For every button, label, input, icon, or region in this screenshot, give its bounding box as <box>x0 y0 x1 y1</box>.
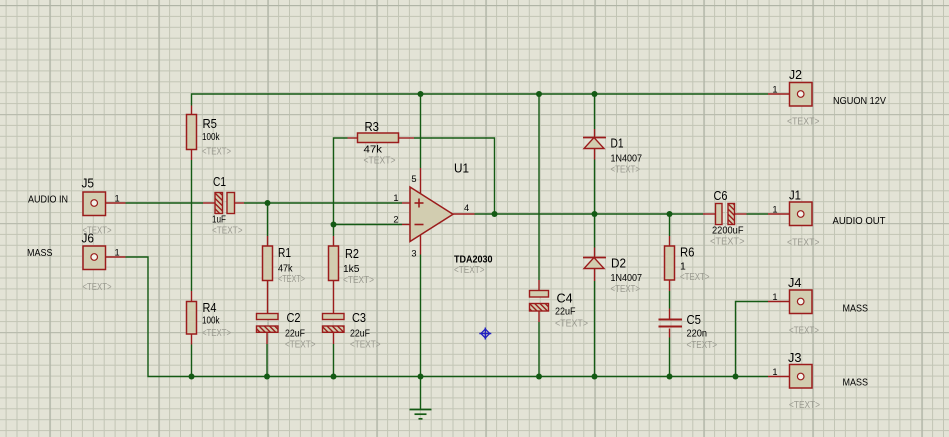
svg-text:1N4007: 1N4007 <box>611 273 643 284</box>
svg-text:<TEXT>: <TEXT> <box>83 282 112 293</box>
node AUDIO OUT <box>833 216 886 227</box>
svg-text:C2: C2 <box>287 311 301 325</box>
svg-text:<TEXT>: <TEXT> <box>789 326 819 337</box>
svg-text:R1: R1 <box>278 246 291 260</box>
wire C6 to J1 <box>747 213 769 215</box>
value R1 47k <box>278 264 293 275</box>
text C2 <box>285 340 316 351</box>
text J4 <box>789 326 819 337</box>
svg-text:<TEXT>: <TEXT> <box>285 340 316 351</box>
junction top rail / D1 <box>592 91 598 97</box>
svg-text:MASS: MASS <box>843 378 869 389</box>
svg-text:1: 1 <box>680 262 686 273</box>
junction ground rail / C3 <box>331 374 337 380</box>
wire U1 pin2 to R2/R3 node <box>334 225 403 237</box>
text R5 <box>202 147 231 158</box>
svg-text:<TEXT>: <TEXT> <box>680 272 710 283</box>
svg-text:2200uF: 2200uF <box>712 226 744 237</box>
wire R5 to R4 bias column <box>191 160 193 291</box>
svg-text:R3: R3 <box>365 120 380 134</box>
value D2 1N4007 <box>611 273 643 284</box>
capacitor C1 <box>203 193 244 214</box>
label J1 <box>789 189 801 203</box>
label C1 <box>213 175 226 189</box>
label U1 <box>454 160 469 175</box>
wire C2 to ground rail <box>266 344 268 377</box>
node MASS J4 <box>843 303 869 314</box>
label J2 <box>789 68 802 82</box>
svg-text:<TEXT>: <TEXT> <box>350 340 381 351</box>
label J6 <box>82 232 95 246</box>
text C1 <box>212 226 243 237</box>
text R1 <box>278 274 305 285</box>
value C2 22uF <box>285 329 305 340</box>
svg-text:1k5: 1k5 <box>343 264 360 275</box>
svg-text:1: 1 <box>772 367 777 377</box>
text C5 <box>687 340 718 351</box>
pin 1 U1 <box>393 193 398 203</box>
svg-text:22uF: 22uF <box>555 307 576 318</box>
wire ground rail (MASS) <box>126 257 769 377</box>
value D1 1N4007 <box>611 154 643 165</box>
label D1 <box>611 137 624 151</box>
text D1 <box>611 165 641 176</box>
text J1 <box>787 238 820 249</box>
svg-text:1: 1 <box>393 193 398 203</box>
svg-text:AUDIO OUT: AUDIO OUT <box>833 216 886 227</box>
value R4 100k <box>202 316 220 327</box>
value C4 22uF <box>555 307 576 318</box>
svg-text:2: 2 <box>393 215 398 225</box>
op-amp U1 TDA2030 <box>402 168 475 255</box>
node NGUON 12V <box>833 96 886 107</box>
wire R6 to C5 <box>669 291 671 309</box>
svg-text:R6: R6 <box>680 246 695 260</box>
svg-text:<TEXT>: <TEXT> <box>710 237 745 248</box>
label R3 <box>365 120 380 134</box>
svg-text:1: 1 <box>772 85 777 95</box>
svg-text:J5: J5 <box>82 177 95 191</box>
svg-text:NGUON 12V: NGUON 12V <box>833 96 886 107</box>
junction ground rail / U1 pin3 <box>418 374 424 380</box>
text C6 <box>710 237 745 248</box>
wire J5 to C1 (AUDIO IN) <box>126 202 204 204</box>
diode D2 1N4007 <box>583 248 606 282</box>
svg-text:<TEXT>: <TEXT> <box>454 265 485 276</box>
text U1 <box>454 265 485 276</box>
pin 1 J3 <box>772 367 777 377</box>
junction output / R6 <box>667 211 673 217</box>
resistor R4 <box>187 291 197 345</box>
capacitor C5 <box>659 309 683 338</box>
svg-text:1: 1 <box>772 292 777 302</box>
wire R3 left to pin2 node <box>334 138 348 225</box>
label C3 <box>352 311 366 325</box>
text D2 <box>611 284 641 295</box>
resistor R3 <box>348 133 415 143</box>
junction output / feedback <box>492 211 498 217</box>
svg-text:MASS: MASS <box>843 303 869 314</box>
resistor R1 <box>263 236 273 314</box>
wire D2 cathode from output row <box>594 214 596 248</box>
value C6 2200uF <box>712 226 744 237</box>
junction ground rail / C4 <box>536 374 542 380</box>
svg-text:<TEXT>: <TEXT> <box>212 226 243 237</box>
wire C3 to ground rail <box>333 344 335 377</box>
svg-text:R4: R4 <box>203 301 217 315</box>
node MASS J6 <box>27 248 53 259</box>
junction input node / R1 <box>265 200 271 206</box>
text R4 <box>202 328 231 339</box>
svg-text:1: 1 <box>772 205 777 215</box>
pin 1 J2 <box>772 85 777 95</box>
value C5 220n <box>687 329 708 340</box>
svg-text:TDA2030: TDA2030 <box>454 255 493 266</box>
svg-text:1: 1 <box>115 194 120 204</box>
wire C1 to U1 pin1 input node <box>244 202 402 204</box>
svg-text:1uF: 1uF <box>212 215 226 226</box>
svg-text:J6: J6 <box>82 232 95 246</box>
svg-text:1N4007: 1N4007 <box>611 154 643 165</box>
svg-text:22uF: 22uF <box>350 329 370 340</box>
svg-text:R2: R2 <box>345 247 359 261</box>
value C3 22uF <box>350 329 370 340</box>
ground <box>410 377 432 419</box>
label J5 <box>82 177 95 191</box>
label D2 <box>611 257 626 271</box>
diode D1 1N4007 <box>583 129 606 160</box>
node AUDIO IN <box>28 195 68 206</box>
wire C4 to ground rail <box>538 322 540 377</box>
text J5 <box>83 226 112 237</box>
svg-text:<TEXT>: <TEXT> <box>343 275 374 286</box>
wire D1 cathode from top rail <box>594 94 596 129</box>
svg-text:100k: 100k <box>202 132 220 143</box>
svg-text:C3: C3 <box>352 311 366 325</box>
svg-text:C6: C6 <box>714 189 728 203</box>
value R2 1k5 <box>343 264 360 275</box>
svg-text:D1: D1 <box>611 137 624 151</box>
label R1 <box>278 246 291 260</box>
svg-text:J2: J2 <box>789 68 802 82</box>
wire D1 anode to output row <box>594 160 596 215</box>
resistor R5 <box>187 106 197 161</box>
text R3 <box>364 156 396 167</box>
value U1 TDA2030 <box>454 255 493 266</box>
svg-text:J4: J4 <box>788 276 802 290</box>
capacitor C6 <box>703 204 747 225</box>
capacitor C3 <box>323 314 345 345</box>
svg-text:C5: C5 <box>687 313 702 327</box>
wire U1 pin5 from top rail <box>420 94 422 168</box>
wire U1 pin3 to ground rail <box>420 255 422 377</box>
junction top rail / U1 pin5 <box>418 91 424 97</box>
text J2 <box>787 117 820 128</box>
wire C4 column top <box>538 94 540 280</box>
junction top rail / C4 <box>536 91 542 97</box>
label R4 <box>203 301 217 315</box>
value R3 47k <box>364 145 383 156</box>
node MASS J3 <box>843 378 869 389</box>
wire R1 column to C2 top <box>267 203 269 236</box>
pin 3 U1 <box>411 249 416 259</box>
svg-text:C4: C4 <box>557 292 573 306</box>
connector J4 <box>768 290 812 314</box>
svg-text:100k: 100k <box>202 316 220 327</box>
svg-text:220n: 220n <box>687 329 708 340</box>
label R6 <box>680 246 695 260</box>
junction ground rail / J4 branch <box>733 374 739 380</box>
origin marker <box>479 328 491 340</box>
pin 5 U1 <box>411 174 416 184</box>
svg-text:<TEXT>: <TEXT> <box>787 238 820 249</box>
wire R3 right feedback to output <box>414 138 495 214</box>
svg-text:AUDIO IN: AUDIO IN <box>28 195 68 206</box>
connector J6 <box>83 246 126 270</box>
pin 1 J4 <box>772 292 777 302</box>
svg-text:J1: J1 <box>789 189 801 203</box>
svg-text:<TEXT>: <TEXT> <box>364 156 396 167</box>
svg-text:<TEXT>: <TEXT> <box>202 328 231 339</box>
capacitor C4 <box>530 280 549 322</box>
svg-text:4: 4 <box>464 203 469 213</box>
value R5 100k <box>202 132 220 143</box>
resistor R2 <box>329 236 339 314</box>
svg-text:<TEXT>: <TEXT> <box>555 319 588 330</box>
wire D2 anode to ground rail <box>594 281 596 377</box>
text C4 <box>555 319 588 330</box>
wire R6 from output row <box>669 214 671 236</box>
pin 1 J6 <box>115 248 120 258</box>
label J3 <box>788 351 802 365</box>
text C3 <box>350 340 381 351</box>
label C2 <box>287 311 301 325</box>
svg-text:1: 1 <box>115 248 120 258</box>
svg-text:<TEXT>: <TEXT> <box>611 284 641 295</box>
value C1 1uF <box>212 215 226 226</box>
wire +12V top rail <box>192 94 769 106</box>
svg-text:47k: 47k <box>364 145 383 156</box>
svg-text:J3: J3 <box>788 351 802 365</box>
label C5 <box>687 313 702 327</box>
pin 1 J5 <box>115 194 120 204</box>
junction output / D1 D2 <box>592 211 598 217</box>
label C6 <box>714 189 728 203</box>
connector J5 <box>83 192 126 216</box>
label J4 <box>788 276 802 290</box>
text J6 <box>83 282 112 293</box>
svg-text:R5: R5 <box>203 117 218 131</box>
pin 2 U1 <box>393 215 398 225</box>
text R2 <box>343 275 374 286</box>
svg-text:D2: D2 <box>611 257 626 271</box>
capacitor C2 <box>257 314 279 345</box>
wire C5 to ground rail <box>669 338 671 377</box>
wire output node to C6 (AUDIO OUT) <box>475 213 704 215</box>
label R5 <box>203 117 218 131</box>
resistor R6 <box>665 236 675 291</box>
connector J3 <box>768 365 812 389</box>
svg-text:<TEXT>: <TEXT> <box>687 340 718 351</box>
svg-text:3: 3 <box>411 249 416 259</box>
svg-text:<TEXT>: <TEXT> <box>787 117 820 128</box>
junction ground rail / D2 <box>592 374 598 380</box>
svg-text:C1: C1 <box>213 175 226 189</box>
connector J2 <box>768 83 812 107</box>
wire J4 branch <box>736 302 769 377</box>
value R6 1 <box>680 262 686 273</box>
label C4 <box>557 292 573 306</box>
wire R4 to ground rail <box>191 345 193 377</box>
pin 1 J1 <box>772 205 777 215</box>
svg-text:U1: U1 <box>454 160 469 175</box>
text R6 <box>680 272 710 283</box>
junction ground rail / C5 <box>667 374 673 380</box>
label R2 <box>345 247 359 261</box>
junction pin2 node <box>331 222 337 228</box>
svg-text:5: 5 <box>411 174 416 184</box>
svg-text:<TEXT>: <TEXT> <box>789 400 820 411</box>
svg-text:MASS: MASS <box>27 248 53 259</box>
svg-text:<TEXT>: <TEXT> <box>202 147 231 158</box>
svg-text:22uF: 22uF <box>285 329 305 340</box>
connector J1 <box>768 202 812 226</box>
pin 4 U1 <box>464 203 469 213</box>
svg-text:<TEXT>: <TEXT> <box>278 274 305 285</box>
junction ground rail / C2 <box>264 374 270 380</box>
svg-text:<TEXT>: <TEXT> <box>611 165 641 176</box>
text J3 <box>789 400 820 411</box>
junction ground rail / R4 <box>189 374 195 380</box>
svg-text:47k: 47k <box>278 264 293 275</box>
